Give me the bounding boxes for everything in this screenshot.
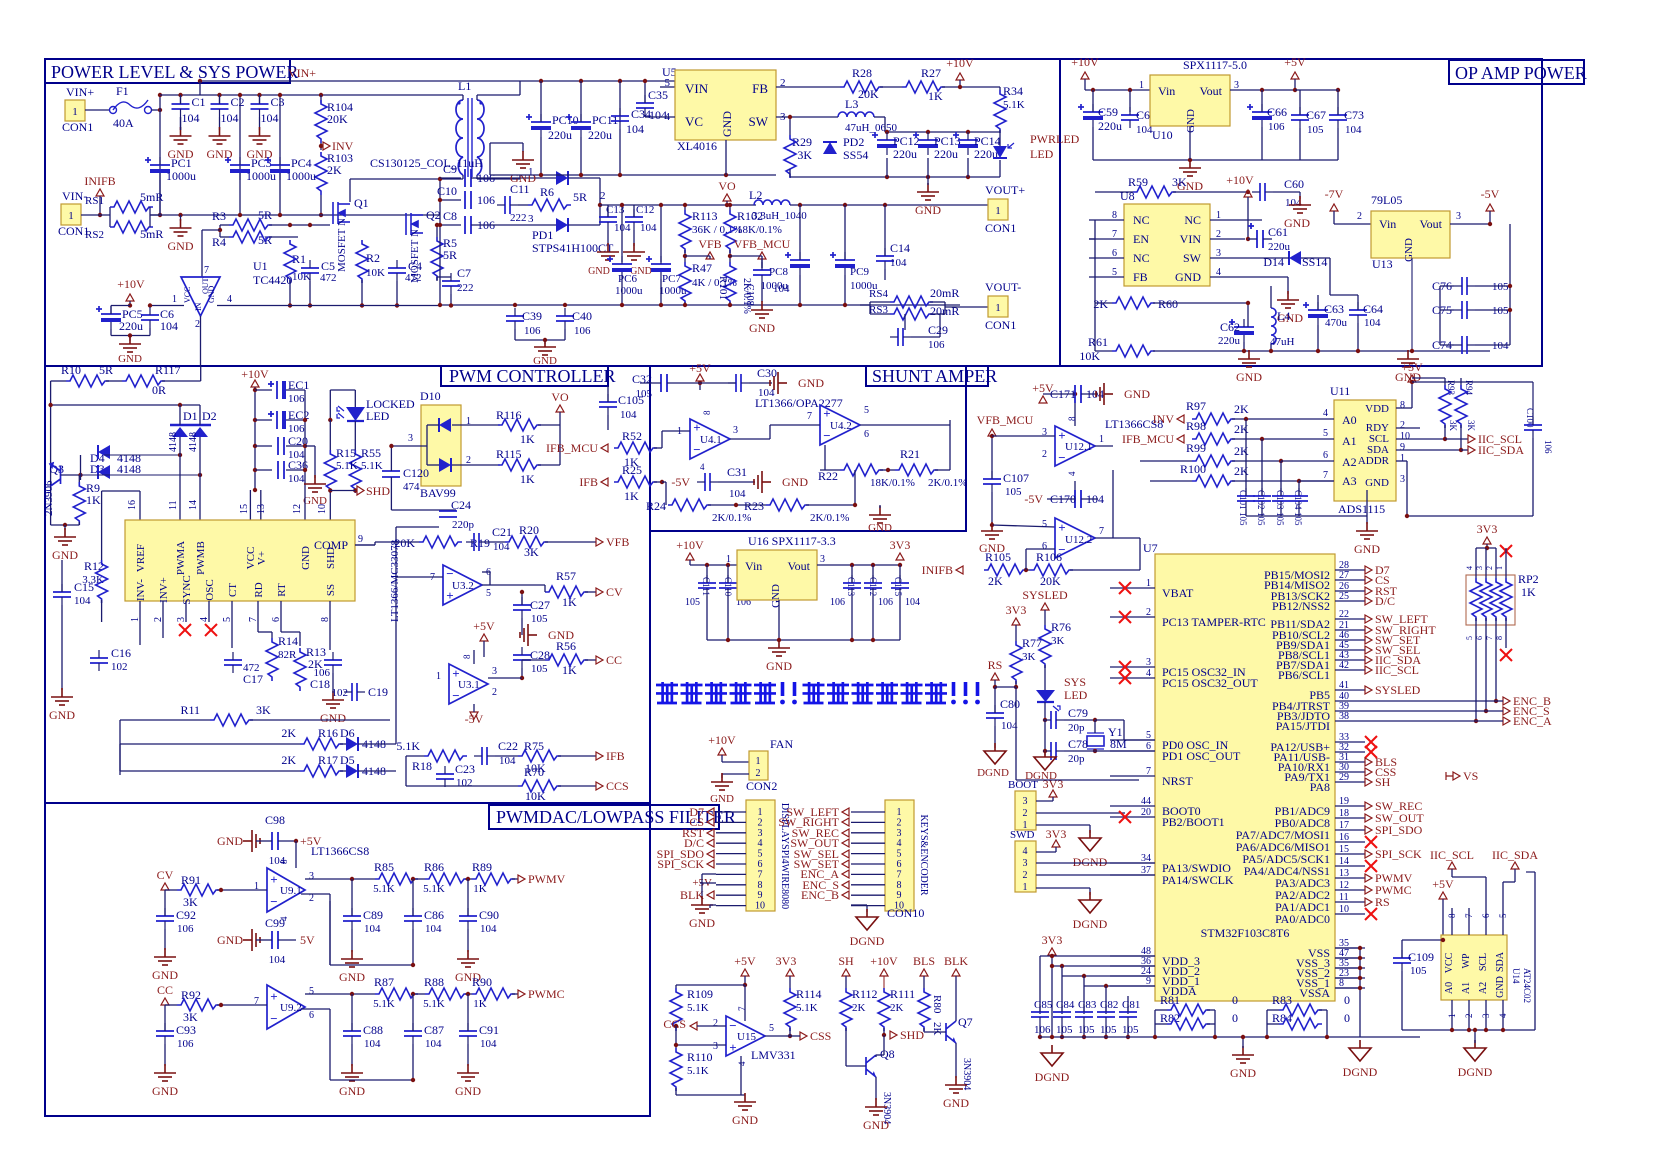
svg-text:18K/0.1%: 18K/0.1% — [737, 224, 782, 236]
svg-text:6: 6 — [758, 859, 763, 870]
svg-text:3: 3 — [713, 1041, 718, 1052]
svg-text:C89: C89 — [363, 908, 383, 922]
svg-text:C83: C83 — [1078, 999, 1097, 1011]
svg-text:−: − — [270, 894, 277, 909]
svg-text:C8: C8 — [443, 209, 457, 223]
svg-text:3K: 3K — [797, 148, 812, 162]
svg-text:3K: 3K — [1448, 420, 1458, 432]
svg-text:5.1K: 5.1K — [687, 1065, 709, 1077]
svg-text:CCS: CCS — [663, 1017, 686, 1031]
svg-text:R61: R61 — [1088, 335, 1108, 349]
svg-text:NC: NC — [1133, 213, 1150, 227]
svg-text:C92: C92 — [176, 908, 196, 922]
svg-text:3V3: 3V3 — [1477, 522, 1498, 536]
svg-text:2K: 2K — [281, 726, 296, 740]
svg-text:R6: R6 — [540, 185, 554, 199]
svg-text:INIFB: INIFB — [922, 563, 953, 577]
svg-text:2K: 2K — [852, 1002, 866, 1014]
svg-text:C62: C62 — [1220, 320, 1240, 334]
svg-text:C108: C108 — [744, 284, 755, 306]
svg-text:VIN: VIN — [1180, 232, 1202, 246]
svg-text:U15: U15 — [737, 1031, 756, 1043]
svg-text:5: 5 — [864, 405, 869, 416]
svg-text:104: 104 — [425, 923, 442, 935]
svg-text:+: + — [823, 406, 830, 421]
svg-text:4: 4 — [1498, 1013, 1508, 1018]
svg-text:1K: 1K — [562, 595, 577, 609]
svg-text:EN: EN — [1133, 232, 1149, 246]
svg-text:PC13 TAMPER-RTC: PC13 TAMPER-RTC — [1162, 615, 1266, 629]
svg-text:5.1K: 5.1K — [396, 739, 420, 753]
svg-text:3: 3 — [1023, 796, 1028, 807]
svg-text:C88: C88 — [363, 1023, 383, 1037]
svg-text:Vout: Vout — [1200, 84, 1223, 98]
svg-text:GND: GND — [339, 1084, 365, 1098]
svg-text:5: 5 — [486, 588, 491, 599]
svg-text:IIC_SDA: IIC_SDA — [1478, 443, 1524, 457]
svg-text:PC10: PC10 — [552, 113, 579, 127]
svg-text:R24: R24 — [646, 499, 666, 513]
svg-text:IIC_SDA: IIC_SDA — [1492, 848, 1538, 862]
svg-text:D10: D10 — [420, 389, 441, 403]
svg-text:1K: 1K — [520, 432, 535, 446]
svg-text:3: 3 — [1023, 858, 1028, 869]
svg-text:1K: 1K — [562, 663, 577, 677]
svg-text:RT: RT — [276, 583, 288, 597]
svg-text:DGND: DGND — [1073, 917, 1108, 931]
svg-text:1K: 1K — [1521, 585, 1536, 599]
svg-text:+10V: +10V — [870, 954, 898, 968]
svg-text:5mR: 5mR — [140, 227, 163, 241]
svg-text:GND: GND — [49, 708, 75, 722]
svg-text:20p: 20p — [1068, 753, 1085, 765]
svg-text:SDA: SDA — [1495, 951, 1506, 972]
svg-text:20K: 20K — [327, 112, 348, 126]
svg-text:8: 8 — [1067, 416, 1077, 421]
svg-text:GND: GND — [798, 376, 824, 390]
svg-text:R47: R47 — [692, 261, 712, 275]
svg-text:PC15 OSC32_OUT: PC15 OSC32_OUT — [1162, 676, 1258, 690]
svg-text:1K: 1K — [624, 489, 639, 503]
svg-text:+5V: +5V — [734, 954, 756, 968]
svg-text:9: 9 — [358, 534, 363, 545]
svg-text:SH: SH — [1375, 775, 1391, 789]
svg-text:+10V: +10V — [1226, 173, 1254, 187]
svg-text:222: 222 — [510, 212, 527, 224]
svg-text:R114: R114 — [796, 987, 822, 1001]
svg-text:GND: GND — [689, 916, 715, 930]
svg-text:SYSLED: SYSLED — [1022, 588, 1068, 602]
svg-text:102: 102 — [332, 687, 349, 699]
svg-text:GND: GND — [1124, 387, 1150, 401]
svg-text:GND: GND — [1236, 370, 1262, 384]
svg-text:A0: A0 — [1342, 413, 1357, 427]
svg-text:SHUNT AMPER: SHUNT AMPER — [872, 366, 997, 386]
svg-text:105: 105 — [1078, 1024, 1095, 1036]
svg-text:C40: C40 — [572, 309, 592, 323]
svg-text:5.1K: 5.1K — [423, 883, 445, 895]
svg-text:VFB: VFB — [698, 237, 721, 251]
svg-text:C91: C91 — [479, 1023, 499, 1037]
svg-text:BLK: BLK — [944, 954, 968, 968]
svg-text:F1: F1 — [116, 84, 129, 98]
svg-text:6: 6 — [1323, 450, 1328, 461]
svg-text:104: 104 — [640, 222, 657, 234]
svg-text:C10: C10 — [437, 184, 457, 198]
svg-text:C79: C79 — [1068, 706, 1088, 720]
svg-text:+5V: +5V — [1432, 877, 1454, 891]
svg-text:R112: R112 — [852, 987, 878, 1001]
svg-text:2: 2 — [1357, 211, 1362, 222]
svg-text:8M: 8M — [1110, 737, 1127, 751]
svg-text:STPS41H100CT: STPS41H100CT — [532, 241, 614, 255]
svg-text:GND: GND — [782, 475, 808, 489]
svg-text:6: 6 — [1481, 913, 1491, 918]
svg-text:R57: R57 — [556, 569, 576, 583]
svg-text:104: 104 — [480, 1038, 497, 1050]
svg-text:1: 1 — [756, 756, 761, 767]
svg-text:C111: C111 — [701, 577, 711, 596]
svg-text:C120: C120 — [403, 466, 429, 480]
svg-text:PC14: PC14 — [974, 134, 1001, 148]
svg-text:A3: A3 — [1342, 474, 1357, 488]
svg-text:VIN+: VIN+ — [66, 85, 94, 99]
svg-text:GND: GND — [710, 793, 734, 805]
svg-text:C81: C81 — [1122, 999, 1140, 1011]
svg-text:R117: R117 — [155, 363, 181, 377]
svg-text:R25: R25 — [622, 463, 642, 477]
svg-text:-5V: -5V — [1024, 492, 1043, 506]
svg-text:PC9: PC9 — [850, 266, 869, 278]
svg-text:DGND: DGND — [1035, 1070, 1070, 1084]
svg-text:R97: R97 — [1186, 399, 1206, 413]
svg-text:R14: R14 — [278, 634, 298, 648]
svg-text:ENC_A: ENC_A — [1513, 714, 1552, 728]
svg-text:4: 4 — [737, 1061, 747, 1066]
svg-text:5.1K: 5.1K — [796, 1002, 818, 1014]
svg-text:−: − — [446, 566, 453, 581]
svg-text:106: 106 — [1034, 1024, 1051, 1036]
svg-text:220u: 220u — [893, 147, 917, 161]
svg-text:3K: 3K — [183, 895, 198, 909]
svg-text:+: + — [693, 420, 700, 435]
svg-text:CC: CC — [157, 983, 173, 997]
svg-text:3K: 3K — [1172, 175, 1187, 189]
svg-text:6: 6 — [864, 429, 869, 440]
svg-text:9: 9 — [897, 890, 902, 901]
svg-text:105: 105 — [1100, 1024, 1117, 1036]
svg-text:105: 105 — [636, 388, 653, 400]
svg-text:1: 1 — [436, 671, 441, 682]
svg-text:4: 4 — [227, 294, 232, 305]
svg-text:D14: D14 — [1263, 255, 1284, 269]
svg-text:2K/0.1%: 2K/0.1% — [928, 477, 967, 489]
svg-text:GND: GND — [588, 266, 610, 277]
svg-text:C93: C93 — [176, 1023, 196, 1037]
svg-text:CS130125_COL_11uH: CS130125_COL_11uH — [370, 156, 483, 170]
svg-text:2: 2 — [1023, 808, 1028, 819]
svg-text:U9.2: U9.2 — [280, 1002, 302, 1014]
svg-text:5mR: 5mR — [140, 190, 163, 204]
svg-text:U4.2: U4.2 — [830, 420, 852, 432]
svg-text:VOUT+: VOUT+ — [985, 183, 1025, 197]
svg-text:1: 1 — [1447, 1014, 1457, 1019]
svg-text:3.3uH_1040: 3.3uH_1040 — [752, 210, 807, 222]
svg-text:1K: 1K — [473, 998, 487, 1010]
svg-text:8: 8 — [279, 859, 289, 864]
svg-text:5: 5 — [309, 986, 314, 997]
svg-text:4: 4 — [1067, 471, 1077, 476]
svg-text:472: 472 — [320, 272, 337, 284]
svg-text:8: 8 — [702, 410, 712, 415]
svg-text:3V3: 3V3 — [890, 538, 911, 552]
svg-text:2K: 2K — [988, 574, 1003, 588]
svg-text:C109: C109 — [1408, 950, 1434, 964]
svg-text:LT1366CS8: LT1366CS8 — [311, 844, 369, 858]
svg-text:106: 106 — [928, 339, 945, 351]
svg-text:GND: GND — [118, 353, 142, 365]
svg-text:4: 4 — [1323, 408, 1328, 419]
svg-text:4148: 4148 — [117, 462, 141, 476]
svg-text:104: 104 — [499, 755, 516, 767]
svg-text:-5V: -5V — [1481, 187, 1500, 201]
svg-text:D/C: D/C — [1375, 594, 1395, 608]
svg-text:2K: 2K — [1234, 464, 1249, 478]
svg-text:RD: RD — [253, 582, 265, 597]
svg-text:XL4016: XL4016 — [677, 139, 717, 153]
svg-text:C66: C66 — [1267, 105, 1287, 119]
svg-text:INV-: INV- — [135, 579, 147, 602]
svg-text:220u: 220u — [934, 147, 958, 161]
svg-text:SH: SH — [838, 954, 854, 968]
svg-text:C63: C63 — [1324, 302, 1344, 316]
svg-text:GND: GND — [300, 546, 312, 570]
svg-text:R18: R18 — [412, 759, 432, 773]
svg-text:R10: R10 — [61, 363, 81, 377]
svg-text:PD1 OSC_OUT: PD1 OSC_OUT — [1162, 749, 1241, 763]
svg-text:RS2: RS2 — [85, 229, 104, 241]
svg-text:Vin: Vin — [745, 559, 762, 573]
svg-text:12: 12 — [292, 504, 303, 514]
svg-text:104: 104 — [905, 597, 920, 608]
svg-text:SW: SW — [1183, 251, 1202, 265]
svg-text:C17: C17 — [243, 672, 263, 686]
svg-text:R83: R83 — [1272, 993, 1292, 1007]
svg-text:104: 104 — [261, 111, 279, 125]
svg-text:C24: C24 — [451, 498, 471, 512]
svg-text:C15: C15 — [74, 580, 94, 594]
svg-text:2K/0.1%: 2K/0.1% — [810, 512, 849, 524]
svg-text:CCS: CCS — [606, 779, 629, 793]
svg-text:R100: R100 — [1180, 462, 1206, 476]
svg-text:1: 1 — [758, 807, 763, 818]
svg-text:1K: 1K — [928, 89, 943, 103]
svg-text:220u: 220u — [1098, 119, 1122, 133]
svg-text:105: 105 — [685, 597, 700, 608]
svg-text:Vin: Vin — [1379, 217, 1396, 231]
svg-text:R99: R99 — [1186, 441, 1206, 455]
svg-text:3: 3 — [1475, 566, 1484, 570]
svg-text:C103: C103 — [1275, 490, 1285, 510]
svg-text:PA0/ADC0: PA0/ADC0 — [1275, 912, 1330, 926]
svg-text:1: 1 — [72, 106, 78, 118]
svg-text:R90: R90 — [472, 975, 492, 989]
svg-text:40A: 40A — [113, 116, 134, 130]
svg-text:-7V: -7V — [1325, 187, 1344, 201]
svg-text:105: 105 — [1005, 486, 1022, 498]
svg-text:CT: CT — [227, 583, 239, 597]
svg-text:R89: R89 — [472, 860, 492, 874]
svg-text:79L05: 79L05 — [1371, 193, 1402, 207]
svg-text:PWMV: PWMV — [528, 872, 566, 886]
svg-text:SS54: SS54 — [843, 148, 868, 162]
svg-text:104: 104 — [626, 122, 644, 136]
svg-text:R59: R59 — [1128, 175, 1148, 189]
svg-text:105: 105 — [1410, 965, 1427, 977]
svg-text:R17: R17 — [318, 753, 338, 767]
svg-text:VSSA: VSSA — [1299, 986, 1330, 1000]
svg-text:Vout: Vout — [788, 559, 811, 573]
svg-text:20K: 20K — [1040, 574, 1061, 588]
svg-text:PD1: PD1 — [532, 228, 553, 242]
svg-text:104: 104 — [221, 111, 239, 125]
svg-text:DGND: DGND — [1073, 855, 1108, 869]
svg-text:U14: U14 — [1511, 968, 1521, 984]
svg-text:3K: 3K — [256, 703, 271, 717]
svg-text:PB12/NSS2: PB12/NSS2 — [1272, 599, 1330, 613]
svg-text:5.1K: 5.1K — [373, 998, 395, 1010]
svg-text:7: 7 — [1323, 470, 1328, 481]
svg-text:U12.1: U12.1 — [1065, 441, 1092, 453]
svg-text:SW: SW — [749, 114, 769, 129]
svg-text:1: 1 — [1099, 434, 1104, 445]
svg-text:3: 3 — [492, 666, 497, 677]
svg-text:106: 106 — [524, 325, 541, 337]
svg-text:102: 102 — [456, 777, 473, 789]
svg-text:15: 15 — [239, 504, 250, 514]
svg-text:20K: 20K — [858, 87, 879, 101]
svg-text:VFB: VFB — [606, 535, 629, 549]
svg-text:5R: 5R — [573, 190, 587, 204]
svg-text:AT24C02: AT24C02 — [1522, 968, 1532, 1003]
svg-text:LT1366/MC33078: LT1366/MC33078 — [389, 539, 401, 622]
svg-text:Vout: Vout — [1420, 217, 1443, 231]
svg-text:R80: R80 — [931, 995, 943, 1014]
svg-text:C39: C39 — [522, 309, 542, 323]
svg-text:2: 2 — [713, 1018, 718, 1029]
svg-text:SS14: SS14 — [1302, 255, 1327, 269]
svg-text:STM32F103C8T6: STM32F103C8T6 — [1201, 926, 1290, 940]
svg-text:8: 8 — [1447, 913, 1457, 918]
svg-text:RP2: RP2 — [1518, 572, 1539, 586]
svg-text:IFB: IFB — [606, 749, 625, 763]
svg-text:L1: L1 — [458, 79, 471, 93]
svg-text:3V3: 3V3 — [1042, 933, 1063, 947]
svg-text:OP AMP POWER: OP AMP POWER — [1455, 63, 1587, 83]
svg-text:PB6/SCL1: PB6/SCL1 — [1278, 668, 1330, 682]
svg-text:1: 1 — [897, 807, 902, 818]
svg-text:GND: GND — [52, 548, 78, 562]
svg-text:PWMB: PWMB — [195, 541, 207, 575]
svg-text:2: 2 — [758, 817, 763, 828]
svg-text:104: 104 — [1364, 317, 1381, 329]
svg-text:PWRLED: PWRLED — [1030, 132, 1080, 146]
svg-text:R21: R21 — [900, 447, 920, 461]
svg-text:4: 4 — [897, 838, 902, 849]
svg-text:104: 104 — [160, 319, 178, 333]
svg-text:1: 1 — [1023, 882, 1028, 893]
svg-text:R23: R23 — [744, 499, 764, 513]
svg-text:GND: GND — [1403, 238, 1415, 262]
svg-text:11: 11 — [168, 500, 179, 510]
svg-text:PC6: PC6 — [618, 273, 637, 285]
svg-text:2K: 2K — [890, 1002, 904, 1014]
svg-text:R105: R105 — [985, 550, 1011, 564]
svg-text:GND: GND — [732, 1113, 758, 1127]
svg-text:R3: R3 — [212, 209, 226, 223]
svg-text:1: 1 — [726, 554, 731, 565]
svg-text:2: 2 — [1464, 1014, 1474, 1019]
svg-text:8: 8 — [462, 654, 472, 659]
svg-text:105: 105 — [1307, 124, 1324, 136]
svg-text:C102: C102 — [1256, 490, 1266, 510]
svg-text:CV: CV — [157, 868, 174, 882]
svg-text:9: 9 — [1400, 442, 1405, 453]
svg-text:R86: R86 — [424, 860, 444, 874]
svg-text:1: 1 — [68, 210, 74, 222]
svg-text:7: 7 — [897, 869, 902, 880]
svg-text:10: 10 — [317, 504, 328, 514]
svg-text:2K: 2K — [1234, 444, 1249, 458]
svg-text:10: 10 — [1400, 431, 1410, 442]
svg-text:6: 6 — [309, 1010, 314, 1021]
svg-text:105: 105 — [531, 663, 548, 675]
svg-text:IN: IN — [194, 302, 203, 311]
svg-text:VIN+: VIN+ — [288, 66, 316, 80]
svg-text:GND: GND — [868, 522, 892, 534]
svg-text:Vin: Vin — [1158, 84, 1175, 98]
svg-text:OSC: OSC — [204, 579, 216, 600]
svg-text:2: 2 — [492, 687, 497, 698]
svg-text:ADS1115: ADS1115 — [1338, 502, 1385, 516]
svg-text:GND: GND — [1354, 542, 1380, 556]
svg-text:INV+: INV+ — [158, 577, 170, 603]
svg-text:106: 106 — [288, 393, 305, 405]
svg-text:TC4420: TC4420 — [253, 273, 292, 287]
svg-text:220u: 220u — [119, 319, 143, 333]
svg-text:R70: R70 — [524, 765, 544, 779]
svg-text:2: 2 — [1485, 566, 1494, 570]
svg-text:1000u: 1000u — [286, 169, 316, 183]
svg-text:C21: C21 — [492, 525, 512, 539]
svg-text:U7: U7 — [1143, 541, 1158, 555]
svg-text:0R: 0R — [152, 383, 166, 397]
svg-text:C34: C34 — [631, 107, 651, 121]
svg-text:C73: C73 — [1344, 108, 1364, 122]
svg-text:R11: R11 — [180, 703, 200, 717]
svg-text:3: 3 — [758, 828, 763, 839]
svg-text:GND: GND — [207, 147, 233, 161]
svg-text:+5V: +5V — [473, 619, 495, 633]
svg-text:LED: LED — [1030, 147, 1054, 161]
svg-text:R27: R27 — [921, 66, 941, 80]
svg-text:474: 474 — [403, 481, 420, 493]
svg-text:220u: 220u — [1268, 241, 1291, 253]
svg-text:CON2: CON2 — [746, 779, 777, 793]
svg-text:2: 2 — [1023, 870, 1028, 881]
svg-text:C14: C14 — [890, 241, 910, 255]
svg-text:5: 5 — [1042, 519, 1047, 530]
